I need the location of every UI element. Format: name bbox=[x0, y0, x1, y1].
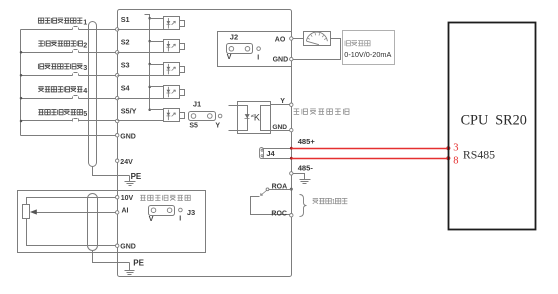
label analog output (Chinese) bbox=[345, 41, 370, 46]
svg-text:3: 3 bbox=[83, 63, 87, 72]
svg-text:8: 8 bbox=[453, 155, 458, 166]
jumper J3 pin V bbox=[151, 208, 156, 213]
svg-text:J1: J1 bbox=[193, 100, 201, 109]
svg-text:10V: 10V bbox=[121, 195, 134, 202]
svg-text:V: V bbox=[149, 216, 154, 223]
label multi-function input terminal 2 bbox=[38, 41, 82, 46]
node pin 3 connection bbox=[446, 146, 450, 150]
jumper J2 pin I bbox=[257, 47, 261, 51]
wire pot top to 10V bbox=[27, 198, 116, 205]
svg-text:1: 1 bbox=[83, 17, 87, 26]
potentiometer RP bbox=[23, 205, 30, 219]
switch K4 (multi-function input 4) bbox=[72, 97, 74, 99]
optocoupler K LED bbox=[245, 114, 250, 118]
svg-text:AO: AO bbox=[275, 36, 286, 43]
jumper J1 pin S5 bbox=[191, 114, 196, 119]
terminal S3 pin circle bbox=[116, 74, 119, 77]
wire ROA bbox=[269, 189, 292, 191]
relay contact pivot bbox=[266, 188, 269, 191]
wire terminal S5 to optocoupler 5 cathode bbox=[118, 120, 164, 122]
brace relay output bbox=[300, 195, 307, 217]
wire terminal S3 to optocoupler 3 cathode bbox=[118, 75, 164, 77]
wire relay to ROC bbox=[251, 197, 290, 215]
terminal GND pin circle bbox=[116, 244, 119, 247]
jumper J2 block bbox=[227, 44, 253, 54]
optocoupler U3 (input isolator) bbox=[164, 63, 185, 76]
optocoupler U2 (input isolator) bbox=[164, 40, 185, 53]
wire pot bottom to GND bbox=[27, 219, 116, 246]
svg-text:Y: Y bbox=[215, 123, 220, 130]
svg-text:S5/Y: S5/Y bbox=[121, 106, 137, 115]
wire shield to PE bbox=[93, 167, 130, 176]
jumper J4 (terminator) bbox=[260, 148, 264, 159]
svg-text:S4: S4 bbox=[121, 84, 131, 93]
svg-text:GND: GND bbox=[120, 244, 136, 251]
wire common bus to GND terminal bbox=[21, 135, 116, 137]
optocoupler K output channel bbox=[261, 106, 271, 131]
svg-text:24V: 24V bbox=[120, 159, 133, 166]
wire stub K anode bbox=[229, 105, 238, 107]
switch K2 (multi-function input 2) bbox=[72, 51, 74, 53]
junction node on input bus row 3 bbox=[20, 74, 23, 77]
wire AO to meter bbox=[293, 38, 304, 40]
switch input 5 wire left segment bbox=[21, 120, 73, 122]
junction node opto bus row 2 bbox=[148, 40, 151, 43]
svg-text:S2: S2 bbox=[121, 38, 130, 47]
svg-text:I: I bbox=[179, 215, 181, 222]
switch input 5 wire right segment to terminal S5 bbox=[79, 120, 116, 122]
svg-text:Y: Y bbox=[280, 98, 285, 105]
wire shield2 to PE bbox=[93, 251, 130, 263]
terminal GND circle (analog) bbox=[290, 57, 293, 60]
wire RS485+ (red) bbox=[292, 148, 449, 150]
terminal 10V pin circle bbox=[116, 196, 119, 199]
optocoupler U5 (input isolator) bbox=[164, 109, 185, 122]
node 485+ junction bbox=[290, 147, 293, 150]
label multi-function input terminal 3 bbox=[38, 64, 82, 69]
svg-text:V: V bbox=[227, 54, 232, 61]
optocoupler K outer box bbox=[238, 102, 271, 134]
svg-text:485-: 485- bbox=[298, 164, 314, 173]
opto supply bus with top tick bbox=[145, 15, 150, 110]
switch input 1 wire right segment to terminal S1 bbox=[79, 29, 116, 31]
junction node on input bus row 4 bbox=[20, 97, 23, 100]
wire bus to optocoupler 2 anode bbox=[150, 41, 164, 43]
label multi-function input terminal 1 bbox=[38, 18, 82, 23]
optocoupler K input channel bbox=[238, 106, 248, 131]
terminal 24V pin circle bbox=[116, 159, 119, 162]
svg-text:GND: GND bbox=[273, 56, 289, 63]
J2 selection box bbox=[218, 32, 292, 67]
terminal S4 pin circle bbox=[116, 96, 119, 99]
terminal GND pin circle bbox=[116, 134, 119, 137]
optocoupler U1 (input isolator) bbox=[164, 17, 185, 30]
svg-text:S5: S5 bbox=[189, 123, 198, 130]
wire K emitter to GND terminal bbox=[271, 130, 290, 132]
wire AI to pot wiper bbox=[37, 212, 116, 214]
svg-text:S3: S3 bbox=[121, 61, 130, 70]
junction node opto bus row 1 bbox=[148, 17, 151, 20]
wire terminal S2 to optocoupler 2 cathode bbox=[118, 52, 164, 54]
switch K3 (multi-function input 3) bbox=[72, 74, 74, 76]
junction node opto bus row 5 bbox=[148, 109, 151, 112]
svg-text:RS485: RS485 bbox=[463, 147, 495, 161]
analog output meter M bbox=[304, 32, 331, 46]
ground symbol (RS485 shield) bbox=[300, 180, 311, 184]
switch K1 (multi-function input 1) bbox=[72, 28, 74, 30]
svg-text:PE: PE bbox=[131, 172, 142, 181]
wire shield to ground bbox=[293, 174, 305, 180]
optocoupler K light arrow bbox=[251, 115, 254, 118]
svg-text:3: 3 bbox=[453, 142, 458, 153]
wire bus to optocoupler 5 anode bbox=[150, 109, 164, 111]
svg-text:485+: 485+ bbox=[298, 137, 316, 146]
switch input 3 wire left segment bbox=[21, 75, 73, 77]
svg-text:K: K bbox=[254, 112, 260, 122]
switch input 3 wire right segment to terminal S3 bbox=[79, 75, 116, 77]
svg-text:AI: AI bbox=[122, 208, 129, 215]
jumper J3 block bbox=[149, 206, 175, 216]
wire K collector to Y terminal bbox=[271, 104, 290, 106]
jumper J2 pin V bbox=[229, 47, 234, 52]
wire bus to optocoupler 1 anode bbox=[150, 18, 164, 20]
terminal ROA circle bbox=[290, 188, 293, 191]
junction node on input bus row 5 bbox=[20, 120, 23, 123]
svg-text:4: 4 bbox=[83, 86, 87, 95]
CPU SR20 box bbox=[449, 23, 536, 230]
terminal shield circle bbox=[290, 172, 293, 175]
terminal Y circle bbox=[290, 103, 293, 106]
svg-text:I: I bbox=[257, 54, 259, 61]
left input common bus bbox=[20, 30, 22, 136]
wire stub K cathode bbox=[229, 130, 238, 132]
svg-text:1: 1 bbox=[332, 199, 336, 206]
switch input 2 wire right segment to terminal S2 bbox=[79, 52, 116, 54]
jumper J1 block bbox=[189, 112, 216, 121]
terminal S5/Y pin circle bbox=[116, 119, 119, 122]
terminal S1 pin circle bbox=[116, 28, 119, 31]
switch input 4 wire left segment bbox=[21, 98, 73, 100]
shielded cable capsule (analog input) bbox=[88, 194, 98, 251]
svg-text:GND: GND bbox=[120, 133, 136, 140]
terminal AI pin circle bbox=[116, 211, 119, 214]
shielded cable capsule (input wires) bbox=[89, 22, 97, 167]
ground symbol PE lower bbox=[125, 263, 135, 275]
svg-text:J2: J2 bbox=[230, 33, 238, 42]
jumper J1 pin middle bbox=[208, 114, 213, 119]
node pin 8 connection bbox=[446, 156, 450, 160]
wire 485- internal bbox=[263, 158, 292, 160]
label multi-function input terminal 4 bbox=[38, 87, 82, 92]
analog output label box bbox=[343, 31, 395, 65]
junction node opto bus row 4 bbox=[148, 86, 151, 89]
terminal ROC circle bbox=[290, 214, 293, 217]
jumper J3 pin I bbox=[179, 208, 183, 212]
terminal S2 pin circle bbox=[116, 51, 119, 54]
label relay 1 output (Chinese) bbox=[313, 198, 332, 203]
svg-text:2: 2 bbox=[83, 40, 87, 49]
wire RS485- (red) bbox=[292, 158, 449, 160]
optocoupler U4 (input isolator) bbox=[164, 86, 185, 99]
junction node on input bus row 2 bbox=[20, 51, 23, 54]
ground symbol PE upper bbox=[125, 176, 136, 186]
svg-text:ROC: ROC bbox=[271, 211, 287, 218]
svg-text:CPU SR20: CPU SR20 bbox=[461, 112, 527, 128]
svg-text:S1: S1 bbox=[121, 15, 130, 24]
svg-text:5: 5 bbox=[83, 109, 87, 118]
svg-text:J4: J4 bbox=[266, 149, 275, 158]
svg-text:J3: J3 bbox=[187, 208, 195, 217]
svg-text:PE: PE bbox=[133, 258, 144, 267]
wire bus to optocoupler 4 anode bbox=[150, 86, 164, 88]
switch K5 (multi-function input 5) bbox=[72, 119, 74, 122]
switch input 2 wire left segment bbox=[21, 52, 73, 54]
wire 485+ internal bbox=[263, 148, 292, 150]
drive unit main box bbox=[118, 10, 292, 277]
switch input 1 wire left segment bbox=[21, 29, 73, 31]
terminal GND circle (collector output) bbox=[290, 128, 293, 131]
pot wiper arrow bbox=[30, 209, 37, 214]
node 485- junction bbox=[290, 157, 293, 160]
wire terminal S1 to optocoupler 1 cathode bbox=[118, 29, 164, 31]
jumper J1 pin Y bbox=[218, 114, 222, 118]
jumper J3 pin middle bbox=[167, 208, 172, 213]
wire meter to GND return bbox=[293, 39, 341, 60]
terminal AO circle bbox=[290, 37, 293, 40]
jumper J2 pin middle bbox=[245, 47, 250, 52]
label multi-function input terminal 5 bbox=[38, 110, 82, 115]
junction node opto bus row 3 bbox=[148, 63, 151, 66]
switch input 4 wire right segment to terminal S4 bbox=[79, 98, 116, 100]
svg-text:GND: GND bbox=[272, 124, 287, 131]
frequency setting supply box bbox=[18, 191, 206, 253]
label frequency setting power supply (Chinese) bbox=[140, 195, 190, 200]
relay contact blade with arrowhead bbox=[261, 191, 267, 196]
wire bus to optocoupler 3 anode bbox=[150, 64, 164, 66]
svg-text:0-10V/0-20mA: 0-10V/0-20mA bbox=[344, 50, 391, 59]
label open collector output (Chinese) bbox=[294, 109, 349, 115]
wire terminal S4 to optocoupler 4 cathode bbox=[118, 98, 164, 100]
svg-text:ROA: ROA bbox=[272, 183, 288, 190]
